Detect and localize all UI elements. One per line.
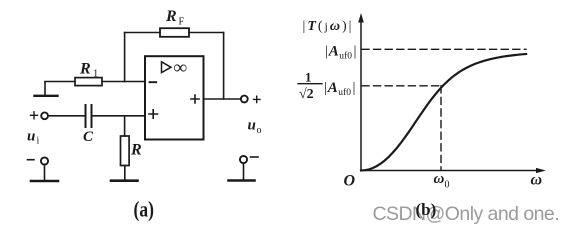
capacitor C [86, 105, 92, 127]
wire: feedback left vertical (from inverting node up) [124, 33, 126, 82]
ground (input lower) [31, 180, 58, 183]
label + at output terminal [254, 96, 261, 102]
svg-text:F: F [179, 17, 185, 28]
svg-text:uf0: uf0 [338, 87, 351, 98]
label R [130, 142, 142, 159]
svg-text:R: R [79, 61, 91, 78]
svg-text:A: A [328, 44, 339, 60]
curve |T(jw)| response [361, 54, 526, 171]
svg-text:R: R [130, 142, 142, 159]
svg-text:u: u [248, 118, 256, 134]
label w (x axis) [531, 172, 543, 189]
svg-text:|T(jω)|: |T(jω)| [303, 19, 354, 34]
op-amp inverting input marker (-) [150, 81, 157, 83]
wire: ground to resistor R1 [45, 81, 75, 83]
svg-text:uf0: uf0 [339, 51, 352, 62]
op-amp output polarity marker (+) [191, 95, 199, 103]
svg-text:C: C [83, 129, 94, 145]
wire: junction down to resistor R [124, 116, 126, 136]
wire: feedback right vertical (down to output) [223, 33, 225, 100]
wire: capacitor to op-amp noninverting input [93, 115, 145, 117]
label u_o [248, 118, 262, 137]
label w0 [434, 171, 450, 191]
wire: R1 to op-amp inverting input [102, 81, 145, 83]
svg-text:o: o [257, 125, 262, 136]
wire: feedback top left [125, 32, 160, 34]
svg-text:|: | [353, 80, 356, 96]
dashed level |Auf0| [362, 48, 526, 50]
ground (R1 input side) [35, 82, 58, 96]
svg-text:|: | [354, 44, 357, 60]
svg-text:u: u [27, 129, 35, 145]
svg-text:ω: ω [531, 172, 543, 189]
graph: y axis [358, 13, 364, 171]
svg-text:√2: √2 [299, 87, 314, 102]
label - at input lower terminal [28, 159, 35, 161]
ground (output lower) [229, 179, 255, 182]
terminal: input - (open circle) [41, 157, 48, 164]
terminal: output + (open circle) [241, 96, 248, 103]
label (b) [416, 200, 437, 219]
svg-text:CSDN@Only and one.: CSDN@Only and one. [373, 203, 560, 225]
terminal: output - (open circle) [240, 156, 247, 163]
label O (origin) [344, 173, 356, 190]
op-amp triangle and infinity symbol [162, 58, 188, 79]
watermark CSDN@Only and one. [373, 203, 560, 225]
terminal: input + (open circle) [31, 112, 48, 119]
label u_i [27, 129, 40, 147]
svg-text:(a): (a) [134, 198, 154, 222]
resistor R1 [75, 78, 102, 86]
label 1/sqrt2 |Auf0| (lower) [298, 70, 356, 103]
op-amp noninverting input marker (+) [149, 110, 158, 118]
svg-text:i: i [37, 136, 40, 147]
dashed vertical at w0 [440, 86, 442, 170]
label - at output lower terminal [251, 156, 259, 158]
wire: R to ground [124, 166, 126, 181]
wire: feedback top right [189, 32, 224, 34]
svg-text:|: | [325, 44, 328, 60]
svg-text:A: A [327, 80, 338, 96]
graph: x axis [361, 168, 546, 173]
label axis |T(jw)| [303, 19, 354, 34]
svg-text:∞: ∞ [174, 58, 188, 79]
resistor RF [160, 28, 189, 37]
svg-text:|: | [324, 80, 327, 96]
wire: input lower terminal to ground [44, 165, 46, 180]
label R1 [79, 61, 98, 80]
label RF [165, 8, 185, 28]
op-amp U1 (box) [145, 56, 204, 139]
svg-text:(b): (b) [416, 200, 437, 219]
svg-text:O: O [344, 173, 356, 190]
resistor R [121, 136, 130, 166]
wire: input terminal to capacitor [48, 115, 84, 117]
svg-text:R: R [165, 8, 177, 25]
svg-text:0: 0 [445, 180, 450, 191]
svg-text:ω: ω [434, 171, 445, 187]
label |Auf0| (upper) [325, 44, 357, 62]
svg-text:1: 1 [93, 69, 98, 80]
dashed level (1/sqrt2)|Auf0| [362, 85, 441, 87]
wire: op-amp output to terminal [204, 98, 241, 100]
wire: output lower terminal to ground [243, 163, 245, 179]
svg-text:1: 1 [305, 70, 312, 85]
label C [83, 129, 94, 145]
ground (below R) [111, 179, 138, 182]
label (a) [134, 198, 154, 222]
